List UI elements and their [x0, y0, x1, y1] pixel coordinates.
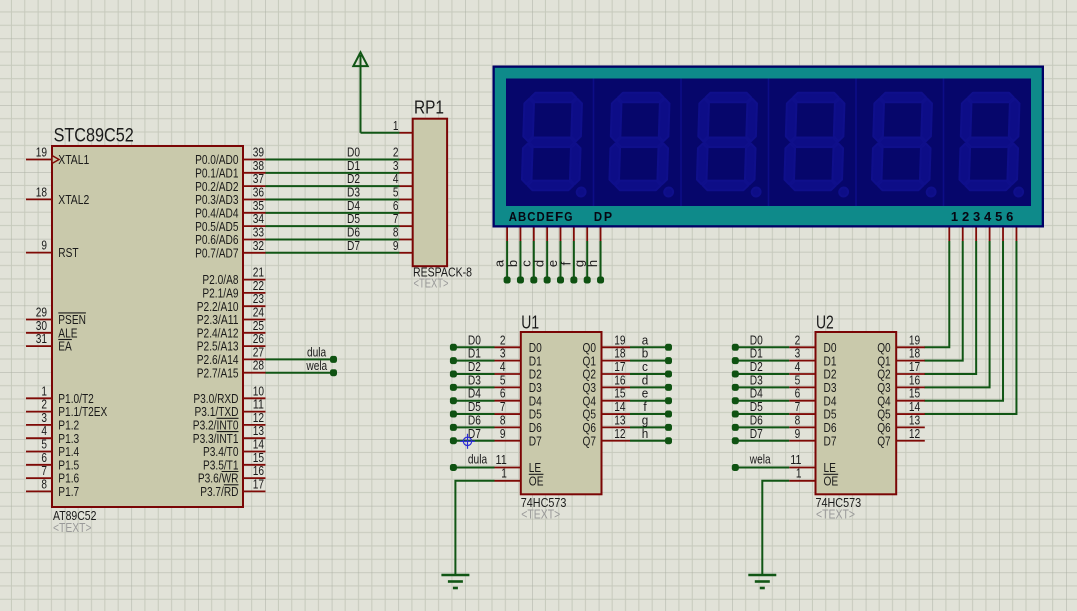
svg-text:32: 32	[253, 238, 264, 253]
pin 11 P3.1/TXD	[243, 411, 266, 413]
wire OE of U2 to ground	[762, 481, 789, 575]
wire net c below display	[533, 241, 535, 280]
junction dot D5 U1	[450, 411, 457, 418]
digit separator 2	[680, 79, 682, 207]
wire net e from U1 Q4	[630, 400, 669, 402]
pin 19 Q0 of U2	[896, 346, 925, 348]
pin 2 P1.1/T2EX	[26, 411, 52, 413]
wire net D0 to U2	[735, 346, 789, 348]
wire net D7 from P0.7 to RP1 pin 9	[266, 252, 400, 254]
wire net e below display	[560, 241, 562, 280]
digit separator 4	[855, 79, 857, 207]
svg-text:1: 1	[796, 465, 802, 480]
junction dot net c	[530, 277, 537, 284]
svg-text:28: 28	[253, 358, 264, 373]
pin 16 P3.6/WR	[243, 477, 266, 479]
pin 27 P2.6/A14	[243, 358, 266, 360]
svg-text:U1: U1	[521, 313, 539, 333]
svg-text:<TEXT>: <TEXT>	[414, 277, 449, 291]
svg-text:5: 5	[995, 209, 1002, 224]
svg-text:18: 18	[36, 184, 47, 199]
latch U1 74HC573	[521, 332, 602, 494]
wire net wela from P2.7/A15	[266, 372, 334, 374]
digit separator 5	[943, 79, 945, 207]
svg-text:9: 9	[500, 426, 506, 441]
pin 2 of RP1	[400, 159, 413, 161]
junction dot D3 U1	[450, 384, 457, 391]
svg-text:3: 3	[973, 209, 980, 224]
pin 8 of RP1	[400, 238, 413, 240]
junction dot D0 U1	[450, 344, 457, 351]
pin 6 P1.5	[26, 464, 52, 466]
pin 12 Q7 of U1	[602, 440, 631, 442]
digit 2 seven-segment	[609, 93, 676, 197]
pin 12 P3.2/INT0	[243, 424, 266, 426]
pin 31 EA	[26, 345, 52, 347]
wire net D6 to U1	[453, 426, 494, 428]
pin 19 Q0 of U1	[602, 346, 631, 348]
svg-text:XTAL1: XTAL1	[58, 152, 89, 167]
junction dot D5 U2	[732, 411, 739, 418]
pin 24 P2.3/A11	[243, 319, 266, 321]
junction dot D4 U1	[450, 397, 457, 404]
pin 6 D4 of U1	[495, 400, 521, 402]
pin 15 P3.5/T1	[243, 464, 266, 466]
svg-text:D7: D7	[824, 433, 837, 448]
junction dot D0 U2	[732, 344, 739, 351]
pin 18 Q1 of U1	[602, 360, 631, 362]
svg-text:D7: D7	[529, 433, 542, 448]
pin 23 P2.2/A10	[243, 305, 266, 307]
pin 38 P0.1/AD1	[243, 172, 266, 174]
pin 17 P3.7/RD	[243, 490, 266, 492]
display pin digit 1 common	[948, 228, 950, 242]
svg-text:U2: U2	[816, 313, 834, 333]
wire net d from U1 Q3	[630, 386, 669, 388]
svg-text:1: 1	[393, 118, 399, 133]
display pin segment a	[506, 228, 508, 242]
pin 11 LE of U1	[495, 467, 521, 469]
pin 11 LE of U2	[789, 467, 815, 469]
pin 4 P1.3	[26, 437, 52, 439]
wire net h from U1 Q7	[630, 440, 669, 442]
svg-text:2: 2	[962, 209, 969, 224]
pin 9 of RP1	[400, 252, 413, 254]
wire digit 2 common to U2 Q1	[924, 241, 962, 361]
pin 7 P1.6	[26, 477, 52, 479]
junction dot net f U1	[665, 411, 672, 418]
pin 9 RST	[26, 252, 52, 254]
display teal frame	[495, 68, 1042, 225]
wire digit 3 common to U2 Q2	[924, 241, 976, 374]
pin 3 of RP1	[400, 172, 413, 174]
pin 8 D6 of U2	[789, 426, 815, 428]
svg-text:<TEXT>: <TEXT>	[816, 508, 855, 522]
svg-text:12: 12	[909, 426, 920, 441]
pin 32 P0.7/AD7	[243, 252, 266, 254]
digit 5 seven-segment	[871, 93, 938, 197]
junction dot net h U1	[665, 437, 672, 444]
svg-text:B: B	[518, 209, 526, 224]
svg-text:G: G	[564, 209, 572, 224]
pin 6 D4 of U2	[789, 400, 815, 402]
pin 14 P3.4/T0	[243, 451, 266, 453]
wire net D6 from P0.6 to RP1 pin 8	[266, 238, 400, 240]
wire net b below display	[519, 241, 521, 280]
junction dot D6 U1	[450, 424, 457, 431]
display pin segment c	[533, 228, 535, 242]
junction dot net b	[517, 277, 524, 284]
svg-text:D7: D7	[750, 426, 763, 441]
svg-text:<TEXT>: <TEXT>	[521, 508, 560, 522]
wire net D1 from P0.1 to RP1 pin 3	[266, 172, 400, 174]
wire net D4 to U2	[735, 400, 789, 402]
wire net h below display	[600, 241, 602, 280]
display pin digit 4 common	[989, 228, 991, 242]
pin 30 ALE	[26, 332, 52, 334]
wire net D1 to U1	[453, 360, 494, 362]
svg-text:E: E	[546, 209, 555, 224]
wire digit 4 common to U2 Q3	[924, 241, 989, 387]
pin 14 Q5 of U2	[896, 413, 925, 415]
display pin segment d	[546, 228, 548, 242]
pin 22 P2.1/A9	[243, 292, 266, 294]
microcontroller U-MCU STC89C52	[52, 146, 243, 507]
pin 35 P0.4/AD4	[243, 212, 266, 214]
junction wela wire end	[330, 369, 337, 376]
junction dot D2 U1	[450, 371, 457, 378]
wire net a from U1 Q0	[630, 346, 669, 348]
svg-text:Q7: Q7	[583, 433, 597, 448]
wire net g below display	[586, 241, 588, 280]
svg-text:9: 9	[393, 238, 399, 253]
origin marker (blue crosshair)	[460, 434, 475, 449]
pin 6 of RP1	[400, 212, 413, 214]
wire digit 5 common to U2 Q4	[924, 241, 1003, 401]
wire net d below display	[546, 241, 548, 280]
pin 1 P1.0/T2	[26, 397, 52, 399]
svg-text:9: 9	[41, 238, 47, 253]
junction dot dula U1	[450, 464, 457, 471]
svg-text:D7: D7	[347, 238, 360, 253]
wire net a below display	[506, 241, 508, 280]
wire net D3 from P0.3 to RP1 pin 5	[266, 198, 400, 200]
pin 3 P1.2	[26, 424, 52, 426]
svg-text:31: 31	[36, 331, 47, 346]
display pin segment g	[586, 228, 588, 242]
pin 13 Q6 of U1	[602, 426, 631, 428]
pin 3 D1 of U1	[495, 360, 521, 362]
latch U2 74HC573	[816, 332, 897, 494]
pin 2 D0 of U1	[495, 346, 521, 348]
svg-text:wela: wela	[306, 358, 328, 373]
junction dot wela U2	[732, 464, 739, 471]
wire OE of U1 to ground	[455, 481, 494, 575]
wire net D4 to U1	[453, 400, 494, 402]
pin 15 Q4 of U2	[896, 400, 925, 402]
svg-text:C: C	[527, 209, 536, 224]
svg-text:P2.7/A15: P2.7/A15	[197, 365, 239, 380]
wire net g from U1 Q6	[630, 426, 669, 428]
svg-text:h: h	[585, 260, 600, 267]
digit 6 seven-segment	[959, 93, 1026, 197]
wire net dula to LE	[453, 467, 494, 469]
pin 13 Q6 of U2	[896, 426, 925, 428]
junction dot D3 U2	[732, 384, 739, 391]
pin 17 Q2 of U1	[602, 373, 631, 375]
wire digit 6 common to U2 Q5	[924, 241, 1016, 414]
pin 2 D0 of U2	[789, 346, 815, 348]
svg-text:RP1: RP1	[414, 98, 444, 118]
svg-text:wela: wela	[749, 452, 771, 467]
pin 5 D3 of U1	[495, 386, 521, 388]
pin 28 P2.7/A15	[243, 372, 266, 374]
wire net D3 to U2	[735, 386, 789, 388]
junction dot net b U1	[665, 357, 672, 364]
pin 17 Q2 of U2	[896, 373, 925, 375]
display pin segment e	[560, 228, 562, 242]
svg-text:17: 17	[253, 476, 264, 491]
pin 9 D7 of U1	[495, 440, 521, 442]
display pin segment h	[600, 228, 602, 242]
digit separator 1	[593, 79, 595, 207]
pin 34 P0.5/AD5	[243, 225, 266, 227]
junction dot net a U1	[665, 344, 672, 351]
svg-text:dula: dula	[468, 452, 488, 467]
pin 7 D5 of U2	[789, 413, 815, 415]
pin 5 D3 of U2	[789, 386, 815, 388]
svg-text:P1.7: P1.7	[58, 484, 79, 499]
junction dot net g U1	[665, 424, 672, 431]
junction dot net f	[570, 277, 577, 284]
pin 29 PSEN	[26, 319, 52, 321]
junction dot D1 U1	[450, 357, 457, 364]
svg-text:4: 4	[984, 209, 992, 224]
svg-text:F: F	[555, 209, 563, 224]
pin 21 P2.0/A8	[243, 279, 266, 281]
pin 5 of RP1	[400, 198, 413, 200]
pin 10 P3.0/RXD	[243, 397, 266, 399]
pin 4 D2 of U2	[789, 373, 815, 375]
digit 1 seven-segment	[521, 93, 588, 197]
svg-text:h: h	[642, 426, 649, 441]
wire net D7 to U2	[735, 440, 789, 442]
svg-text:P3.7/RD: P3.7/RD	[200, 484, 238, 499]
wire net D0 from P0.0 to RP1 pin 2	[266, 159, 400, 161]
pin 14 Q5 of U1	[602, 413, 631, 415]
pin 36 P0.3/AD3	[243, 198, 266, 200]
junction dot net d U1	[665, 384, 672, 391]
junction dula wire end	[330, 356, 337, 363]
pin 5 P1.4	[26, 451, 52, 453]
pin 7 of RP1	[400, 225, 413, 227]
junction dot net h	[597, 277, 604, 284]
svg-text:8: 8	[41, 476, 47, 491]
wire net D3 to U1	[453, 386, 494, 388]
pin 16 Q3 of U1	[602, 386, 631, 388]
display DS1 6-digit 7-segment, outer border	[493, 66, 1045, 228]
svg-text:1: 1	[501, 465, 507, 480]
wire net f below display	[573, 241, 575, 280]
pin 1 OE of U2	[789, 480, 815, 482]
pin 8 D6 of U1	[495, 426, 521, 428]
wire net D1 to U2	[735, 360, 789, 362]
pin 7 D5 of U1	[495, 413, 521, 415]
pin 4 of RP1	[400, 185, 413, 187]
wire net D5 to U1	[453, 413, 494, 415]
wire net D6 to U2	[735, 426, 789, 428]
wire net c from U1 Q2	[630, 373, 669, 375]
svg-text:RST: RST	[58, 245, 78, 260]
wire net D5 from P0.5 to RP1 pin 7	[266, 225, 400, 227]
svg-text:STC89C52: STC89C52	[54, 126, 134, 147]
svg-text:P: P	[604, 209, 613, 224]
svg-text:OE: OE	[529, 473, 544, 488]
pin 18 XTAL2	[26, 198, 52, 200]
junction dot net a	[504, 277, 511, 284]
digit separator 3	[768, 79, 770, 207]
display pin digit 5 common	[1002, 228, 1004, 242]
pin 3 D1 of U2	[789, 360, 815, 362]
wire net b from U1 Q1	[630, 360, 669, 362]
pin 16 Q3 of U2	[896, 386, 925, 388]
junction dot D4 U2	[732, 397, 739, 404]
junction dot net g	[584, 277, 591, 284]
pin 26 P2.5/A13	[243, 345, 266, 347]
pin 19 XTAL1	[26, 159, 52, 161]
svg-text:D: D	[537, 209, 545, 224]
junction dot net c U1	[665, 371, 672, 378]
wire power to RP1 pin 1	[361, 132, 400, 134]
junction dot D1 U2	[732, 357, 739, 364]
pin 1 OE of U1	[495, 480, 521, 482]
svg-text:EA: EA	[58, 339, 72, 354]
pin 37 P0.2/AD2	[243, 185, 266, 187]
pin 1 of RP1	[400, 132, 413, 134]
display pin digit 6 common	[1015, 228, 1017, 242]
svg-text:<TEXT>: <TEXT>	[53, 521, 92, 535]
display inner panel	[506, 79, 1031, 207]
svg-text:Q7: Q7	[877, 433, 891, 448]
pin 8 P1.7	[26, 490, 52, 492]
wire net D0 to U1	[453, 346, 494, 348]
svg-text:P0.7/AD7: P0.7/AD7	[195, 245, 238, 260]
wire net wela to LE	[735, 467, 789, 469]
wire net D5 to U2	[735, 413, 789, 415]
digit 4 seven-segment	[784, 93, 851, 197]
svg-text:OE: OE	[824, 473, 839, 488]
junction dot net d	[544, 277, 551, 284]
digit 3 seven-segment	[696, 93, 763, 197]
junction dot net e U1	[665, 397, 672, 404]
svg-text:A: A	[509, 209, 518, 224]
junction dot D6 U2	[732, 424, 739, 431]
pin 4 D2 of U1	[495, 373, 521, 375]
display pin digit 2 common	[962, 228, 964, 242]
junction dot D2 U2	[732, 371, 739, 378]
pin 12 Q7 of U2	[896, 440, 925, 442]
pin 15 Q4 of U1	[602, 400, 631, 402]
display pin segment b	[519, 228, 521, 242]
svg-text:1: 1	[951, 209, 958, 224]
power symbol VCC arrow	[353, 52, 367, 66]
svg-text:D: D	[594, 209, 602, 224]
wire net D4 from P0.4 to RP1 pin 6	[266, 212, 400, 214]
svg-text:19: 19	[36, 145, 47, 160]
wire digit 1 common to U2 Q0	[924, 241, 949, 347]
wire net f from U1 Q5	[630, 413, 669, 415]
pin 9 D7 of U2	[789, 440, 815, 442]
wire net D2 to U2	[735, 373, 789, 375]
svg-text:XTAL2: XTAL2	[58, 192, 89, 207]
pin 39 P0.0/AD0	[243, 159, 266, 161]
pin 18 Q1 of U2	[896, 360, 925, 362]
wire net D2 from P0.2 to RP1 pin 4	[266, 185, 400, 187]
pin 25 P2.4/A12	[243, 332, 266, 334]
wire net dula from P2.6/A14	[266, 358, 334, 360]
resistor pack RP1	[413, 119, 447, 267]
junction dot D7 U1	[450, 437, 457, 444]
pin 33 P0.6/AD6	[243, 238, 266, 240]
wire net D2 to U1	[453, 373, 494, 375]
wire net D7 to U1	[453, 440, 494, 442]
svg-text:12: 12	[614, 426, 625, 441]
pin 13 P3.3/INT1	[243, 437, 266, 439]
ground symbol below U2	[748, 574, 776, 577]
junction dot D7 U2	[732, 437, 739, 444]
ground symbol below U1	[441, 574, 469, 577]
junction dot net e	[557, 277, 564, 284]
svg-text:9: 9	[795, 426, 801, 441]
svg-text:6: 6	[1006, 209, 1013, 224]
display pin digit 3 common	[975, 228, 977, 242]
display pin segment f	[573, 228, 575, 242]
